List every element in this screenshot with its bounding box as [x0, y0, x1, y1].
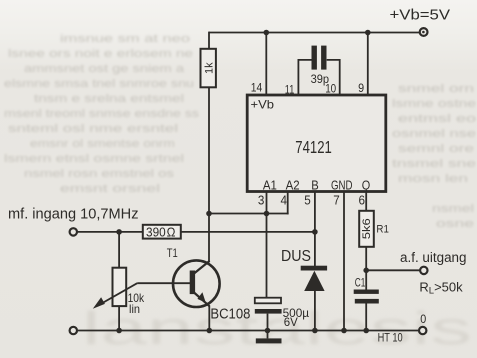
wire: pin14 stub to rail: [265, 33, 267, 96]
svg-text:tnsm e srelna entsmel: tnsm e srelna entsmel: [34, 93, 184, 105]
wire: T1 emitter down to rail: [208, 306, 210, 331]
wire: 39p left bracket: [298, 60, 311, 95]
junction B-wire / DUS: [312, 229, 318, 235]
svg-text:GND: GND: [331, 178, 353, 193]
wire: +Vb top rail: [209, 32, 420, 34]
terminal ground left: [70, 327, 77, 334]
svg-text:semnl ore: semnl ore: [398, 143, 474, 155]
svg-text:9: 9: [358, 83, 364, 95]
svg-text:5k6: 5k6: [361, 218, 373, 239]
svg-text:Q: Q: [362, 178, 371, 193]
wire: T1 base lead: [137, 282, 190, 284]
svg-text:390 Ω: 390 Ω: [146, 226, 176, 240]
svg-text:elsmne smsa tnel snmroe snu: elsmne smsa tnel snmroe snu: [4, 78, 194, 90]
capacitor 500u bottom plate: [255, 309, 282, 314]
svg-text:lin: lin: [129, 302, 140, 316]
diode DUS triangle: [304, 271, 324, 291]
wire: pot bottom lead: [118, 306, 120, 331]
wire: pin9 stub to rail: [367, 33, 369, 96]
wire: pin5 stub: [314, 191, 316, 232]
wire: top-left corner down to 1k: [208, 32, 210, 49]
svg-text:nsmel: nsmel: [432, 203, 474, 215]
svg-text:1k: 1k: [203, 62, 215, 74]
diode DUS cathode bar: [301, 266, 327, 271]
svg-text:snmel orn: snmel orn: [398, 83, 474, 95]
junction R1 / output: [363, 268, 369, 274]
capacitor 500u top plate (hollow): [255, 298, 281, 304]
svg-text:entmsl eo: entmsl eo: [398, 113, 476, 125]
junction rail / 500u: [265, 328, 271, 334]
wire: input to 390 ohm: [77, 231, 143, 233]
svg-text:BC108: BC108: [210, 305, 250, 322]
wire: DUS bottom lead: [314, 291, 316, 331]
wire: 39p right bracket: [327, 60, 340, 95]
junction A-wire / collector: [206, 211, 212, 217]
svg-text:DUS: DUS: [281, 248, 311, 265]
transistor T1 emitter lead with arrow: [194, 292, 210, 306]
svg-text:0: 0: [420, 314, 426, 326]
junction top rail / pin9: [365, 30, 371, 36]
svg-text:A2: A2: [286, 178, 300, 193]
svg-text:RL>50k: RL>50k: [419, 280, 463, 297]
svg-text:+Vb: +Vb: [251, 98, 275, 112]
transistor T1 base bar: [190, 271, 195, 295]
resistor R 1k body: [201, 49, 216, 88]
transistor T1 circle: [173, 260, 220, 307]
op IC 74121 body: [247, 95, 386, 192]
svg-text:6: 6: [359, 193, 366, 208]
wire: pin3 stub: [266, 191, 268, 214]
svg-text:osne: osne: [436, 218, 474, 230]
svg-text:mf. ingang 10,7MHz: mf. ingang 10,7MHz: [8, 206, 139, 222]
junction top rail / pin14: [264, 30, 270, 36]
svg-text:ammsnet ost ge sniem a: ammsnet ost ge sniem a: [24, 63, 185, 75]
svg-text:14: 14: [251, 83, 263, 95]
wire: 500u bottom lead: [267, 314, 269, 331]
svg-text:C1: C1: [355, 278, 366, 290]
svg-text:7: 7: [333, 193, 340, 208]
svg-text:R1: R1: [376, 224, 389, 236]
svg-text:mosn len: mosn len: [398, 173, 468, 185]
capacitor 39p right plate: [321, 46, 326, 70]
wire: pin4 stub: [287, 191, 289, 214]
wire: pin3 node down to 500u cap: [266, 214, 268, 298]
svg-text:lsmne ostne: lsmne ostne: [392, 98, 476, 110]
junction rail / pin7: [341, 328, 347, 334]
resistor R1 5k6 body: [359, 211, 374, 247]
junction rail / emitter: [207, 328, 213, 334]
svg-text:6V: 6V: [284, 315, 298, 329]
terminal af uitgang: [420, 267, 427, 274]
capacitor 39p left plate: [312, 46, 317, 70]
wire: C1 bottom lead: [365, 303, 367, 330]
terminal 0 right: [419, 327, 426, 334]
capacitor C1 top plate: [354, 290, 379, 294]
wire: R1 to output node: [365, 247, 367, 271]
svg-text:lsmern etnsl osmne srtnel: lsmern etnsl osmne srtnel: [4, 153, 184, 165]
junction input / pot: [116, 229, 122, 235]
terminal +Vb center dot: [422, 31, 425, 34]
wire: pot top lead: [118, 232, 120, 268]
wire: A1/A2 horizontal: [209, 213, 289, 215]
svg-text:nsmel rosn emstnel os: nsmel rosn emstnel os: [24, 168, 175, 180]
potentiometer wiper arrow: [93, 283, 137, 309]
svg-text:emsnr ol smentse onrm: emsnr ol smentse onrm: [30, 138, 175, 150]
wire: 1k bottom to T1 collector: [208, 87, 210, 262]
transistor T1 collector lead: [194, 261, 210, 274]
svg-text:msenl treoml snmse ensdne ss: msenl treoml snmse ensdne ss: [4, 108, 200, 120]
svg-text:A1: A1: [263, 178, 277, 193]
svg-text:lsnee ors noit e erlosem ne: lsnee ors noit e erlosem ne: [8, 48, 193, 60]
wire: pin7 GND down to rail: [343, 191, 345, 331]
wire: 390 ohm to pin5 B: [181, 231, 315, 233]
wire: C1 top lead: [365, 270, 367, 289]
junction rail / pot: [116, 328, 122, 334]
svg-text:snteml osl nme ersntel: snteml osl nme ersntel: [8, 123, 178, 135]
svg-text:T1: T1: [167, 248, 178, 260]
svg-text:B: B: [311, 178, 319, 193]
svg-text:emsnt orsnel: emsnt orsnel: [60, 183, 160, 195]
svg-text:3: 3: [258, 193, 265, 208]
capacitor C1 bottom plate: [355, 299, 379, 304]
terminal mf input: [70, 228, 77, 235]
junction A-wire / pin3: [264, 211, 270, 217]
wire: ground symbol stub: [267, 331, 269, 339]
svg-text:tnsmel sne: tnsmel sne: [392, 158, 476, 170]
resistor 390 ohm body: [143, 225, 181, 239]
bleed-through background text (decorative, faint): [4, 33, 476, 230]
wire: DUS top lead: [314, 232, 316, 266]
junction rail / DUS: [312, 328, 318, 334]
junction rail / C1: [363, 328, 369, 334]
svg-text:10: 10: [325, 84, 336, 96]
ground symbol bar: [256, 338, 282, 343]
potentiometer 10k body: [113, 268, 127, 306]
wire: output node to terminal: [366, 269, 420, 271]
svg-text:5: 5: [304, 193, 311, 208]
svg-text:11: 11: [285, 85, 295, 97]
svg-text:HT 10: HT 10: [378, 332, 403, 344]
svg-text:4: 4: [281, 193, 288, 208]
svg-text:imsnue sm at neo: imsnue sm at neo: [60, 33, 190, 45]
svg-text:74121: 74121: [295, 137, 332, 157]
svg-text:osnmel nse: osnmel nse: [392, 128, 476, 140]
wire: pin6 stub to R1: [365, 191, 367, 211]
svg-text:+Vb=5V: +Vb=5V: [390, 7, 451, 24]
svg-text:a.f. uitgang: a.f. uitgang: [400, 250, 467, 265]
wire: ground bottom rail: [77, 330, 419, 332]
terminal +Vb: [420, 28, 428, 36]
